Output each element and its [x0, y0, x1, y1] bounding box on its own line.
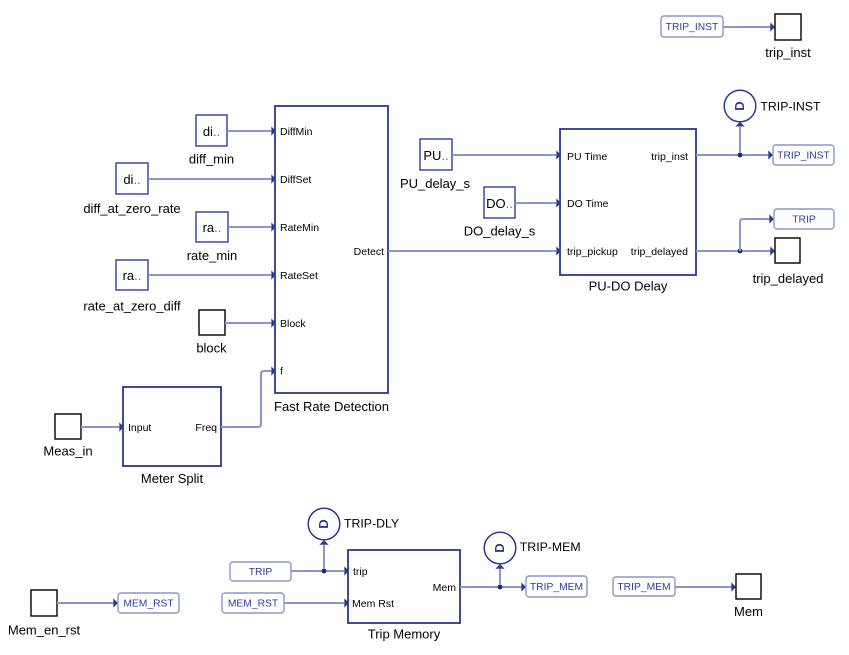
svg-text:DiffMin: DiffMin [280, 126, 313, 138]
svg-text:DO..: DO.. [486, 196, 513, 211]
wire Meas_in to Input [81, 426, 119, 428]
svg-text:TRIP: TRIP [792, 215, 816, 226]
svg-text:TRIP-MEM: TRIP-MEM [520, 540, 581, 554]
arrowhead goto TRIP_INST [768, 150, 773, 159]
svg-text:ra..: ra.. [123, 268, 142, 283]
wire Mem_en_rst to goto MEM_RST [57, 602, 114, 604]
svg-text:Detect: Detect [354, 246, 384, 258]
arrowhead goto MEM_RST [113, 598, 118, 607]
junction TRIP [322, 569, 327, 574]
svg-text:trip_inst: trip_inst [765, 45, 811, 60]
svg-text:PU-DO Delay: PU-DO Delay [589, 279, 668, 294]
subsystem Trip Memory [348, 550, 460, 642]
svg-text:di..: di.. [123, 172, 140, 187]
junction trip_delayed [738, 249, 743, 254]
wire from MEM_RST to Mem Rst input [284, 602, 344, 604]
arrowhead up viewer TRIP-MEM [495, 564, 504, 569]
arrowhead f [271, 366, 276, 375]
wire trip_inst out to goto TRIP_INST [696, 154, 769, 156]
svg-text:RateMin: RateMin [280, 222, 319, 234]
svg-text:TRIP_MEM: TRIP_MEM [530, 582, 583, 593]
arrowhead trip_delayed port [770, 246, 775, 255]
svg-text:trip_delayed: trip_delayed [631, 246, 688, 258]
wire from TRIP_MEM to Mem port [675, 586, 732, 588]
arrowhead up viewer TRIP-DLY [319, 540, 328, 545]
junction trip_inst [738, 153, 743, 158]
from tag TRIP_MEM [613, 577, 675, 596]
svg-text:DO_delay_s: DO_delay_s [464, 224, 536, 239]
wire diff_min to DiffMin [227, 130, 271, 132]
arrowhead Block [271, 318, 276, 327]
wire from TRIP to trip input [291, 570, 344, 572]
svg-text:TRIP_MEM: TRIP_MEM [617, 582, 670, 593]
arrowhead trip input [344, 566, 349, 575]
goto tag TRIP_MEM [526, 576, 587, 597]
wire Detect to trip_pickup [388, 250, 556, 252]
viewer circle TRIP-INST [724, 90, 821, 122]
constant rate_at_zero_diff [83, 260, 181, 314]
svg-text:ra..: ra.. [203, 220, 222, 235]
svg-text:TRIP_INST: TRIP_INST [666, 22, 719, 33]
svg-text:TRIP: TRIP [249, 567, 273, 578]
goto tag TRIP [774, 209, 834, 229]
from tag MEM_RST [222, 593, 284, 613]
svg-text:PU_delay_s: PU_delay_s [400, 176, 471, 191]
arrowhead goto TRIP_MEM [521, 582, 526, 591]
arrowhead goto TRIP [769, 214, 774, 223]
arrowhead DiffSet [271, 174, 276, 183]
arrowhead RateMin [271, 222, 276, 231]
svg-text:Block: Block [280, 318, 306, 330]
wire block to Block [225, 322, 271, 324]
svg-text:trip_inst: trip_inst [651, 151, 688, 163]
svg-text:Mem Rst: Mem Rst [352, 598, 394, 610]
svg-text:Mem_en_rst: Mem_en_rst [8, 623, 81, 638]
svg-text:TRIP-INST: TRIP-INST [760, 100, 821, 114]
svg-text:Trip Memory: Trip Memory [368, 627, 441, 642]
constant PU_delay_s [400, 139, 471, 191]
wire DO_delay_s to DO Time [515, 202, 556, 204]
svg-text:diff_min: diff_min [189, 152, 234, 167]
svg-text:D: D [316, 519, 331, 528]
wire PU_delay_s to PU Time [452, 154, 556, 156]
subsystem Meter Split [123, 387, 221, 486]
svg-text:D: D [492, 543, 507, 552]
arrowhead Input [119, 422, 124, 431]
outport trip_inst [765, 14, 811, 60]
arrowhead Mem Rst input [344, 598, 349, 607]
svg-text:MEM_RST: MEM_RST [228, 599, 279, 610]
svg-text:block: block [196, 341, 227, 356]
svg-text:diff_at_zero_rate: diff_at_zero_rate [83, 201, 180, 216]
svg-text:Mem: Mem [734, 604, 763, 619]
svg-text:DiffSet: DiffSet [280, 174, 311, 186]
wire branch to goto TRIP [740, 219, 770, 251]
svg-text:DO Time: DO Time [567, 198, 609, 210]
wire trip_delayed out to outport trip_delayed [696, 250, 771, 252]
svg-text:f: f [280, 366, 283, 378]
arrowhead PU Time [556, 150, 561, 159]
constant diff_at_zero_rate [83, 163, 180, 216]
arrowhead trip_pickup [556, 246, 561, 255]
svg-text:Input: Input [128, 422, 151, 434]
constant rate_min [187, 212, 238, 263]
wire branch to viewer TRIP-DLY [323, 545, 325, 569]
svg-text:Meas_in: Meas_in [43, 444, 92, 459]
arrowhead up viewer TRIP-INST [735, 122, 744, 127]
svg-text:rate_at_zero_diff: rate_at_zero_diff [83, 299, 181, 314]
svg-text:Fast Rate Detection: Fast Rate Detection [274, 399, 389, 414]
viewer circle TRIP-DLY [308, 508, 399, 540]
svg-text:TRIP-DLY: TRIP-DLY [344, 516, 399, 530]
wire Mem out to goto TRIP_MEM [460, 586, 522, 588]
subsystem PU-DO Delay [560, 129, 696, 294]
subsystem Fast Rate Detection [274, 106, 389, 414]
arrowhead Mem port [731, 582, 736, 591]
from tag TRIP_INST (top) [661, 16, 723, 37]
inport Mem_en_rst [8, 590, 81, 638]
svg-text:Meter Split: Meter Split [141, 471, 204, 486]
junction TRIP_MEM [498, 585, 503, 590]
goto tag MEM_RST [118, 593, 179, 613]
svg-text:trip: trip [353, 566, 368, 578]
outport Mem [734, 574, 763, 619]
svg-text:TRIP_INST: TRIP_INST [777, 151, 830, 162]
svg-text:Freq: Freq [195, 422, 217, 434]
svg-text:PU Time: PU Time [567, 151, 607, 163]
svg-text:RateSet: RateSet [280, 270, 318, 282]
svg-text:di..: di.. [203, 124, 220, 139]
svg-text:rate_min: rate_min [187, 248, 238, 263]
inport Meas_in [43, 414, 92, 459]
constant diff_min [189, 115, 234, 167]
svg-text:MEM_RST: MEM_RST [123, 599, 174, 610]
goto tag TRIP_INST [773, 145, 834, 165]
wire branch to viewer TRIP-MEM [499, 569, 501, 585]
arrowhead DO Time [556, 198, 561, 207]
outport trip_delayed [753, 238, 824, 286]
svg-text:trip_delayed: trip_delayed [753, 271, 824, 286]
wire branch to viewer TRIP-INST [739, 127, 741, 153]
wire rate_at_zero_diff to RateSet [148, 274, 271, 276]
wire Freq to f [221, 371, 271, 427]
arrowhead DiffMin [271, 126, 276, 135]
wire rate_min to RateMin [228, 226, 271, 228]
arrowhead into trip_inst port [770, 22, 775, 31]
wire from-tag TRIP_INST to trip_inst port [723, 26, 771, 28]
svg-text:trip_pickup: trip_pickup [567, 246, 618, 258]
arrowhead RateSet [271, 270, 276, 279]
svg-text:Mem: Mem [433, 582, 457, 594]
svg-text:D: D [732, 101, 747, 110]
inport block [196, 310, 227, 356]
constant DO_delay_s [464, 187, 536, 239]
svg-text:PU..: PU.. [423, 148, 448, 163]
viewer circle TRIP-MEM [484, 532, 580, 564]
wire diff_at_zero_rate to DiffSet [148, 178, 271, 180]
from tag TRIP [230, 562, 291, 581]
